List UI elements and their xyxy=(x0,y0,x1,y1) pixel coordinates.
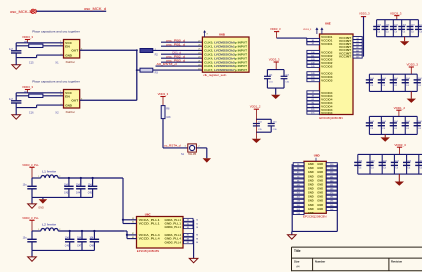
svg-text:GND: GND xyxy=(317,207,323,211)
svg-text:VDD3_3: VDD3_3 xyxy=(270,27,281,31)
oscillator X1 body xyxy=(64,40,80,59)
svg-text:84: 84 xyxy=(187,242,189,244)
ground arrow bankB xyxy=(381,137,390,141)
ground symbol osc2 xyxy=(12,115,21,119)
pin U6D left 178 xyxy=(293,199,304,202)
svg-text:36: 36 xyxy=(187,227,189,229)
cap bank bankT top rail xyxy=(377,19,419,21)
wire U6D left rail xyxy=(291,164,293,231)
pin U6E right 101 xyxy=(353,49,362,52)
pin U6D left 203 xyxy=(293,207,304,210)
wire gnd rail osc1 xyxy=(16,57,36,59)
svg-text:EP2C8Q208C8N: EP2C8Q208C8N xyxy=(303,214,327,218)
capacitor filter1.2 xyxy=(80,178,82,186)
svg-text:36: 36 xyxy=(196,227,198,229)
pin U6C left VCCA_PLL4 xyxy=(131,234,137,236)
pin U6D left 38 xyxy=(293,167,304,170)
svg-text:VDD3_3: VDD3_3 xyxy=(158,92,169,96)
wire gnd pin osc1 xyxy=(37,54,64,56)
capacitor bankT.2 xyxy=(384,20,386,37)
power symbol VDD3_3 bar xyxy=(274,61,279,63)
pin U6D left 79 xyxy=(293,175,304,178)
cap bank bankA gnd stem xyxy=(410,91,412,98)
pin U6D right 116 xyxy=(326,167,337,170)
svg-text:86: 86 xyxy=(196,235,198,237)
pin U6D right 205 xyxy=(326,203,337,206)
pin U6E right 82 xyxy=(353,46,362,49)
svg-text:EN: EN xyxy=(65,44,70,48)
capacitor bankT.3 xyxy=(392,20,394,37)
svg-text:GND: GND xyxy=(317,174,323,178)
capacitor bankC.4 xyxy=(393,154,395,174)
svg-text:VCCD_PLL4: VCCD_PLL4 xyxy=(139,237,160,241)
svg-text:GND: GND xyxy=(308,199,314,203)
svg-text:EP2C8Q208C8N: EP2C8Q208C8N xyxy=(319,116,343,120)
wire clock input row 7 xyxy=(156,65,203,67)
wire filter2 gnd stem xyxy=(31,250,33,257)
wire U6D gnd stem xyxy=(291,231,293,234)
pin U6E left 32 xyxy=(307,42,320,45)
pin U6D right 140 xyxy=(326,179,337,182)
pin U6D right 196 xyxy=(326,199,337,202)
svg-text:GND: GND xyxy=(317,199,323,203)
power symbol VDD3_3 bar xyxy=(274,31,279,33)
junction osc1 xyxy=(136,49,138,51)
svg-text:osc_MCK-1(: osc_MCK-1( xyxy=(10,10,33,14)
svg-text:EN: EN xyxy=(65,94,70,98)
pin U6D right 131 xyxy=(326,175,337,178)
capacitor C osc1 xyxy=(11,50,21,52)
pin U6E left 133 xyxy=(307,57,320,60)
svg-text:GND: GND xyxy=(308,170,314,174)
capacitor C31 xyxy=(264,75,271,77)
svg-text:OUT: OUT xyxy=(71,99,78,103)
svg-text:GND: GND xyxy=(317,203,323,207)
pin U6E left 171 xyxy=(307,111,320,114)
svg-text:GND: GND xyxy=(317,182,323,186)
svg-text:C48: C48 xyxy=(90,246,95,248)
capacitor C osc2 xyxy=(11,100,21,102)
power pin stub U6B xyxy=(204,32,206,37)
wire osc2 OUT xyxy=(80,99,137,101)
svg-text:osc_MCK_d: osc_MCK_d xyxy=(84,7,106,11)
svg-text:33: 33 xyxy=(132,218,134,220)
svg-text:GNDG_PLL4: GNDG_PLL4 xyxy=(165,240,182,244)
ground symbol U6D xyxy=(288,235,297,239)
svg-text:GND: GND xyxy=(65,104,73,108)
svg-text:VDD3_3: VDD3_3 xyxy=(22,85,33,89)
wire vcc rail osc1 xyxy=(16,42,63,44)
capacitor filter1.3 xyxy=(92,178,94,186)
capacitor filter2.1 xyxy=(69,231,71,239)
svg-text:VDD3_3: VDD3_3 xyxy=(407,63,419,67)
capacitor bankT.5 xyxy=(409,20,411,37)
svg-text:VCCINT: VCCINT xyxy=(339,54,351,58)
pin U6D right 110 xyxy=(326,163,337,166)
cap bank bankC bottom rail xyxy=(358,173,422,175)
ground symbol osc1 xyxy=(12,65,21,69)
pin U6E right 41 xyxy=(353,40,362,43)
resistor R1 osc xyxy=(29,44,43,47)
resistor R8 vertical xyxy=(161,106,165,119)
cap bank bankA top rail xyxy=(369,73,417,75)
capacitor bankB.1 xyxy=(368,116,370,134)
svg-text:GND: GND xyxy=(38,206,44,209)
svg-text:VDD3_3: VDD3_3 xyxy=(394,143,406,147)
svg-text:GND: GND xyxy=(317,166,323,170)
pin U6E right 143 xyxy=(353,55,362,58)
svg-text:VCCIO1: VCCIO1 xyxy=(321,42,333,46)
pin U6E left 80 xyxy=(307,101,320,104)
IC U6D ground pins body xyxy=(304,161,326,213)
wire cap pair2 frame xyxy=(256,118,271,120)
svg-text:VCCIO3: VCCIO3 xyxy=(321,79,333,83)
wire en osc1 xyxy=(16,45,29,47)
svg-text:GND: GND xyxy=(308,203,314,207)
wire U6D bottom rail xyxy=(292,230,337,232)
ground symbol filter1 xyxy=(28,204,37,208)
svg-text:VDD1_2: VDD1_2 xyxy=(394,106,406,110)
svg-text:GND: GND xyxy=(308,162,314,166)
svg-text:VDD3_3: VDD3_3 xyxy=(22,35,33,39)
ground arrow cap pair2 xyxy=(252,139,261,143)
svg-text:GND: GND xyxy=(308,211,314,215)
svg-text:VDD3_3_PLL: VDD3_3_PLL xyxy=(22,163,39,167)
pin U6C right GNDG_PLL4 xyxy=(183,241,194,243)
wire gnd pin osc2 xyxy=(37,104,64,106)
capacitor bankB.3 xyxy=(392,116,394,134)
capacitor bankA.2 xyxy=(380,74,382,91)
svg-text:104: 104 xyxy=(418,121,422,123)
pin U6E left 106 xyxy=(307,50,320,53)
svg-text:10u: 10u xyxy=(23,237,28,240)
wire VDD to U6E left pins xyxy=(277,37,307,39)
pin U6C left VCCD_PLL1 xyxy=(131,223,137,225)
cap bank bankC gnd stem xyxy=(398,174,400,181)
wire clock input row 5 xyxy=(161,57,202,59)
ground arrow bankT xyxy=(400,41,409,45)
svg-text:CLK7, LVCMOS/Clk7p INPUT: CLK7, LVCMOS/Clk7p INPUT xyxy=(204,68,247,72)
svg-text:86: 86 xyxy=(187,235,189,237)
svg-text:88: 88 xyxy=(196,238,198,240)
svg-text:A0_RST#_d: A0_RST#_d xyxy=(157,62,178,66)
svg-text:XtalOsc: XtalOsc xyxy=(66,60,76,64)
cap bank bankB gnd stem xyxy=(384,134,386,137)
svg-text:C44: C44 xyxy=(76,193,81,195)
pin U6D right 208 xyxy=(326,207,337,210)
capacitor filter1.1 xyxy=(68,178,70,186)
capacitor bankA.3 xyxy=(392,74,394,91)
svg-text:A4: A4 xyxy=(296,264,300,268)
wire en osc2 xyxy=(16,95,29,97)
capacitor bankB.2 xyxy=(380,116,382,134)
power tick bankB xyxy=(396,109,401,111)
pin U6E left 121 xyxy=(307,108,320,111)
IC U6B clock inputs body xyxy=(202,37,249,72)
wire left vertical osc1 xyxy=(15,43,17,51)
power tick bankA xyxy=(409,66,414,68)
svg-text:1: 1 xyxy=(38,176,39,178)
pin U6E left 139 xyxy=(307,61,320,64)
pin U6E left 160 xyxy=(307,79,320,82)
capacitor filter1 input xyxy=(31,178,33,186)
pin U6E left 145 xyxy=(307,64,320,67)
wire filter2 to U6C xyxy=(124,230,127,232)
svg-text:GND: GND xyxy=(317,191,323,195)
capacitor bankC.6 xyxy=(418,154,420,174)
svg-text:GND: GND xyxy=(317,170,323,174)
wire filter1 to U6C xyxy=(122,177,124,179)
svg-text:GND: GND xyxy=(308,174,314,178)
svg-text:U6D: U6D xyxy=(314,154,320,158)
capacitor C32 xyxy=(281,75,288,77)
svg-text:Revision: Revision xyxy=(391,259,403,263)
wire U6E right rail xyxy=(363,17,365,57)
ground arrow bankA xyxy=(407,99,416,103)
oscillator X2 body xyxy=(64,90,80,109)
junction row8 tap xyxy=(136,69,138,71)
wire clock input row 4 xyxy=(161,53,202,55)
power symbol VDD3_3 bar xyxy=(160,96,165,98)
svg-text:SW-PB: SW-PB xyxy=(188,153,196,156)
svg-text:34: 34 xyxy=(196,220,198,222)
svg-text:GND: GND xyxy=(65,54,73,58)
svg-text:Place capacitors and osc toget: Place capacitors and osc together xyxy=(32,80,80,84)
svg-text:VDD1_2: VDD1_2 xyxy=(250,105,261,109)
svg-text:Number: Number xyxy=(315,259,325,263)
wire filter1 bottom rail xyxy=(32,196,93,198)
svg-text:VCCIO2: VCCIO2 xyxy=(321,64,333,68)
pin U6C left VCCA_PLL1 xyxy=(131,219,137,221)
power symbol VDD3_3 bar xyxy=(25,39,30,41)
pin U6D left 60 xyxy=(293,171,304,174)
cap bank bankB top rail xyxy=(369,115,417,117)
svg-text:104: 104 xyxy=(418,78,422,80)
IC U6E power pins body xyxy=(320,34,354,115)
wire filter1 gnd stem xyxy=(31,197,33,204)
pin U6D left 190 xyxy=(293,203,304,206)
capacitor bankC.5 xyxy=(406,154,408,174)
svg-text:C45: C45 xyxy=(88,193,93,195)
svg-text:87: 87 xyxy=(132,233,134,235)
ground arrow cap pair1 xyxy=(271,95,280,99)
ground arrow S1 xyxy=(203,158,211,162)
capacitor filter2.3 xyxy=(93,231,95,239)
pin U6D left 98 xyxy=(293,179,304,182)
pin U6E left 17 xyxy=(307,91,320,94)
svg-text:L1 ferrite: L1 ferrite xyxy=(42,170,57,174)
wire clock input row 1 xyxy=(161,41,202,43)
svg-text:2: 2 xyxy=(59,176,60,178)
pin U6D right 151 xyxy=(326,183,337,186)
capacitor bankB.4 xyxy=(404,116,406,134)
ground arrow bankC xyxy=(395,182,404,186)
svg-text:X2: X2 xyxy=(55,110,59,114)
wire U6D right rail xyxy=(336,164,338,231)
pin U6E left 61 xyxy=(307,98,320,101)
capacitor bankC.2 xyxy=(369,154,371,174)
power stubs above U6E xyxy=(316,30,318,34)
svg-text:VDD3_3: VDD3_3 xyxy=(359,11,370,15)
capacitor bankC.3 xyxy=(381,154,383,174)
pin U6D right 125 xyxy=(326,171,337,174)
wire left vertical osc2 xyxy=(15,93,17,101)
pin U6E left 30 xyxy=(307,38,320,41)
svg-text:C46: C46 xyxy=(65,246,70,248)
power symbol VDD3_3 bar xyxy=(25,89,30,91)
IC U6C PLL power body xyxy=(137,217,184,249)
pin U6E left 149 xyxy=(307,72,320,75)
wire clock input row 2 xyxy=(161,45,202,47)
title block frame xyxy=(292,246,422,248)
svg-text:U6C: U6C xyxy=(145,212,152,216)
pin U6C right GNDG_PLL1 xyxy=(183,226,194,228)
wire U6C right rail xyxy=(193,220,195,259)
svg-text:osc_PB1_d: osc_PB1_d xyxy=(166,42,186,46)
ground symbol filter2 xyxy=(28,257,37,261)
svg-text:85: 85 xyxy=(132,237,134,239)
svg-text:2: 2 xyxy=(59,229,60,231)
svg-text:GND: GND xyxy=(308,191,314,195)
svg-text:GND: GND xyxy=(308,187,314,191)
svg-text:GND: GND xyxy=(308,166,314,170)
svg-text:XtalOsc: XtalOsc xyxy=(66,110,76,114)
pin U6D left 214 xyxy=(293,212,304,215)
svg-text:L2 ferrite: L2 ferrite xyxy=(42,223,57,227)
pin U6D left 16 xyxy=(293,163,304,166)
capacitor C36 xyxy=(268,123,275,125)
pin U6C right GND_PLL4 xyxy=(183,238,194,240)
ground symbol U6C xyxy=(189,258,198,262)
svg-text:VCCIO4: VCCIO4 xyxy=(321,111,333,115)
wire filter2 top xyxy=(32,230,41,232)
switch S1 body xyxy=(188,144,197,152)
svg-text:VDD3_3: VDD3_3 xyxy=(390,11,402,15)
svg-text:C15: C15 xyxy=(29,61,34,64)
svg-text:VCCD_PLL1: VCCD_PLL1 xyxy=(139,222,160,226)
svg-text:EP2C8Q208C8N: EP2C8Q208C8N xyxy=(137,249,160,253)
svg-text:1: 1 xyxy=(38,229,39,231)
wire osc_MCK xyxy=(37,10,107,12)
svg-text:Place capacitors and osc toget: Place capacitors and osc together xyxy=(32,30,80,34)
capacitor bankT.6 xyxy=(417,20,419,37)
capacitor filter2.2 xyxy=(81,231,83,239)
wire filter1 top xyxy=(32,177,41,179)
pin U6C right GNDA_PLL1 xyxy=(183,219,194,221)
pin U6D right 184 xyxy=(326,195,337,198)
wire filter2 bottom rail xyxy=(32,249,94,251)
wire osc1 OUT xyxy=(80,49,137,51)
svg-text:GNDG_PLL1: GNDG_PLL1 xyxy=(165,225,182,229)
svg-text:31: 31 xyxy=(187,223,189,225)
pin U6D left 152 xyxy=(293,191,304,194)
wire vcc rail osc2 xyxy=(16,92,63,94)
wire cap pair1 frame xyxy=(267,69,284,71)
pin U6E left 99 xyxy=(307,104,320,107)
capacitor bankB.5 xyxy=(416,116,418,134)
svg-text:GND: GND xyxy=(317,187,323,191)
resistor R2 osc xyxy=(29,94,43,97)
wire vertical bus join xyxy=(136,50,138,100)
svg-text:C16: C16 xyxy=(29,111,34,114)
ground arrow filter1 AGND xyxy=(42,197,44,199)
pin U6D right 172 xyxy=(326,191,337,194)
svg-text:10u: 10u xyxy=(23,184,28,187)
svg-text:Size: Size xyxy=(294,259,300,263)
power tick bankC xyxy=(397,146,402,148)
cap bank bankA bottom rail xyxy=(369,90,417,92)
svg-text:GND: GND xyxy=(317,195,323,199)
pin U6E right 63 xyxy=(353,43,362,46)
cap bank bankT bottom rail xyxy=(377,36,419,38)
pin U6C left VCCD_PLL4 xyxy=(131,238,137,240)
pin U6E left 155 xyxy=(307,75,320,78)
svg-text:GND: GND xyxy=(317,178,323,182)
pin U6C right GNDA_PLL4 xyxy=(183,234,194,236)
capacitor bankA.1 xyxy=(368,74,370,91)
resistor R3 series xyxy=(137,69,140,71)
capacitor bankA.5 xyxy=(416,74,418,91)
inductor L1 xyxy=(41,175,58,178)
svg-text:88: 88 xyxy=(187,238,189,240)
wire clock input row 6 xyxy=(161,61,202,63)
svg-text:U6E: U6E xyxy=(325,22,331,26)
power tick filter2 xyxy=(29,219,34,221)
svg-text:clk_register_seln: clk_register_seln xyxy=(203,73,227,77)
wire gnd rail osc2 xyxy=(16,107,36,109)
svg-text:GND: GND xyxy=(317,162,323,166)
capacitor bankT.1 xyxy=(376,20,378,37)
resistor R2 series xyxy=(140,49,153,53)
svg-text:VDD3_3: VDD3_3 xyxy=(303,29,312,31)
svg-text:VDD3_3: VDD3_3 xyxy=(269,58,280,62)
cap bank bankC top rail xyxy=(358,153,422,155)
capacitor C35 xyxy=(253,123,260,125)
pin U6D left 120 xyxy=(293,183,304,186)
cap bank bankB bottom rail xyxy=(369,133,417,135)
wire R8 to S1 xyxy=(162,119,164,148)
svg-text:34: 34 xyxy=(187,220,189,222)
svg-text:X1: X1 xyxy=(55,60,59,64)
pin U6E left 111 xyxy=(307,54,320,57)
svg-text:C43: C43 xyxy=(64,193,69,195)
svg-text:oc_RST#_d: oc_RST#_d xyxy=(164,143,181,147)
power symbol VDD1_2 bar xyxy=(254,108,259,110)
pin U6D left 142 xyxy=(293,187,304,190)
pin U6D left 167 xyxy=(293,195,304,198)
wire cap pair1 gnd stem xyxy=(275,88,277,95)
wire S1 to ground xyxy=(196,147,206,149)
top stub U6D xyxy=(315,158,317,162)
power tick bankT xyxy=(394,15,399,17)
svg-text:31: 31 xyxy=(196,223,198,225)
capacitor bankT.4 xyxy=(401,20,403,37)
cap bank bankT gnd stem xyxy=(404,37,406,42)
capacitor filter2 input xyxy=(31,231,33,239)
capacitor bankA.4 xyxy=(404,74,406,91)
capacitor bankC.1 xyxy=(357,154,359,174)
power tick filter1 xyxy=(29,166,34,168)
pin U6C right GND_PLL1 xyxy=(183,223,194,225)
pin U6E left 39 xyxy=(307,94,320,97)
svg-text:35: 35 xyxy=(132,222,134,224)
pin U6E right 24 xyxy=(353,37,362,40)
svg-text:VDD3_3_PLL: VDD3_3_PLL xyxy=(22,216,39,220)
svg-text:84: 84 xyxy=(196,242,198,244)
svg-text:GND: GND xyxy=(308,182,314,186)
ground arrow AGND xyxy=(39,199,48,203)
svg-text:OUT: OUT xyxy=(71,49,78,53)
